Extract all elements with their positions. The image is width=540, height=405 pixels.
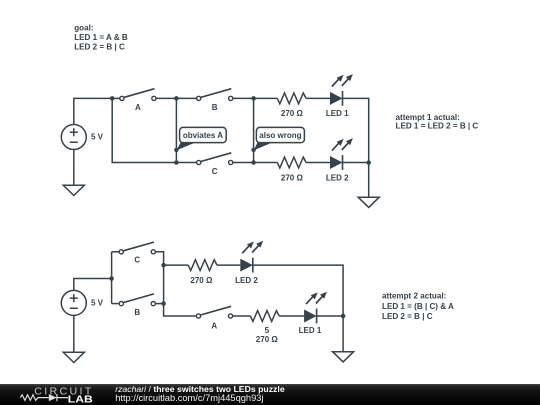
svg-text:goal:: goal: (74, 24, 93, 33)
wire N10 to ground (342, 316, 344, 352)
svg-text:LAB: LAB (68, 394, 93, 405)
annotation flag: obviates A (174, 127, 226, 152)
svg-text:B: B (134, 308, 140, 317)
LED D2 (LED 2) (326, 138, 353, 182)
voltage source V1 5V (61, 125, 103, 150)
svg-text:B: B (212, 103, 218, 112)
wire left vertical rail C-B (111, 252, 113, 304)
svg-text:LED 2: LED 2 (235, 276, 258, 285)
wire switch C to R2 (233, 162, 277, 164)
node N10 junction (341, 314, 346, 319)
svg-text:LED 1: LED 1 (299, 326, 322, 335)
wire V2- to ground (73, 315, 75, 352)
wire switch C down middle rail to switch A (156, 252, 199, 316)
svg-text:LED 1: LED 1 (326, 109, 349, 118)
ground GND3 (63, 352, 84, 362)
svg-text:270 Ω: 270 Ω (256, 335, 279, 344)
wire R4 to LED1b (279, 315, 304, 317)
svg-text:LED 1 = A & B: LED 1 = A & B (74, 33, 128, 42)
LED D3 (LED 2) (235, 241, 263, 285)
wire N4 down to bottom rail (253, 98, 255, 162)
svg-text:C: C (212, 167, 218, 176)
wire R2 to LED2 (306, 162, 330, 164)
wire V1+ to node N1 (74, 98, 112, 124)
wire switch A to switch B (156, 97, 199, 99)
logo schematic: diode (49, 394, 57, 401)
wire switch B to middle rail (156, 303, 164, 305)
switch SW4 (C) (119, 242, 155, 264)
node N1 junction (110, 96, 115, 101)
switch SW6 (A) (196, 306, 232, 330)
svg-text:LED 2: LED 2 (326, 173, 349, 182)
svg-text:also wrong: also wrong (259, 131, 301, 140)
switch SW3 (C) (197, 153, 233, 176)
wire to switch B2 (112, 303, 122, 305)
svg-text:C: C (134, 255, 140, 264)
svg-text:attempt 2 actual:: attempt 2 actual: (382, 292, 446, 301)
wire N1 to switch A (112, 97, 122, 99)
node N6 junction (366, 160, 371, 165)
resistor R2 270 (277, 157, 306, 182)
node N7 junction (109, 276, 114, 281)
resistor R4 270 (250, 311, 279, 344)
wire R1 to LED1 (306, 97, 330, 99)
svg-text:5 V: 5 V (91, 299, 104, 308)
svg-text:5 V: 5 V (91, 133, 104, 142)
wire V2+ to node N7 (74, 279, 112, 291)
wire V1- to ground (73, 150, 75, 186)
resistor R1 270 (277, 93, 306, 118)
svg-text:A: A (211, 322, 217, 331)
switch SW2 (B) (197, 89, 233, 112)
svg-text:obviates A: obviates A (183, 131, 223, 140)
wire N1 down and bottom rail to switch C (112, 98, 199, 162)
node N4 junction (251, 96, 256, 101)
switch SW1 (A) (120, 89, 156, 112)
svg-text:LED 1 = (B | C) & A: LED 1 = (B | C) & A (382, 302, 454, 311)
ground GND4 (333, 352, 354, 362)
wire R3 to LED2b (217, 264, 240, 266)
svg-text:LED 2 = B | C: LED 2 = B | C (74, 43, 125, 52)
wire LED1b to right rail (317, 315, 344, 317)
note: attempt 1 actual (396, 113, 479, 131)
wire N2 down to bottom rail (175, 98, 177, 162)
svg-text:5: 5 (265, 326, 270, 335)
wire LED1 to right rail down (343, 98, 369, 162)
note: goal text (74, 24, 128, 52)
svg-text:LED 1 = LED 2 = B | C: LED 1 = LED 2 = B | C (396, 122, 479, 131)
voltage source V2 5V (61, 290, 103, 315)
wire LED2b to right rail down (253, 265, 343, 316)
svg-text:270 Ω: 270 Ω (281, 109, 304, 118)
switch SW5 (B) (119, 294, 155, 317)
node N9 junction (161, 301, 166, 306)
resistor R3 270 (188, 260, 217, 285)
wire switch A to R4 (233, 315, 251, 317)
note: attempt 2 actual (382, 292, 454, 322)
wire LED2 to right rail (343, 162, 369, 164)
wire to switch C2 (112, 251, 122, 253)
wire switch B to R1 (233, 97, 277, 99)
wire N8 to R3 (164, 264, 189, 266)
svg-text:A: A (135, 103, 141, 112)
logo schematic: resistor squiggle (20, 395, 49, 401)
LED D4 (LED 1) (299, 292, 327, 335)
annotation flag: also wrong (251, 127, 304, 152)
svg-text:http://circuitlab.com/c/7mj445: http://circuitlab.com/c/7mj445qgh93j (115, 393, 263, 403)
ground GND2 (358, 197, 379, 207)
wire N6 to ground (368, 163, 370, 198)
svg-text:270 Ω: 270 Ω (281, 173, 304, 182)
svg-text:270 Ω: 270 Ω (190, 276, 213, 285)
node N3 junction (174, 160, 179, 165)
node N5 junction (251, 160, 256, 165)
svg-text:LED 2 = B | C: LED 2 = B | C (382, 312, 433, 321)
node N8 junction (161, 263, 166, 268)
ground GND1 (63, 185, 84, 195)
LED D1 (LED 1) (326, 74, 353, 118)
node N2 junction (174, 96, 179, 101)
